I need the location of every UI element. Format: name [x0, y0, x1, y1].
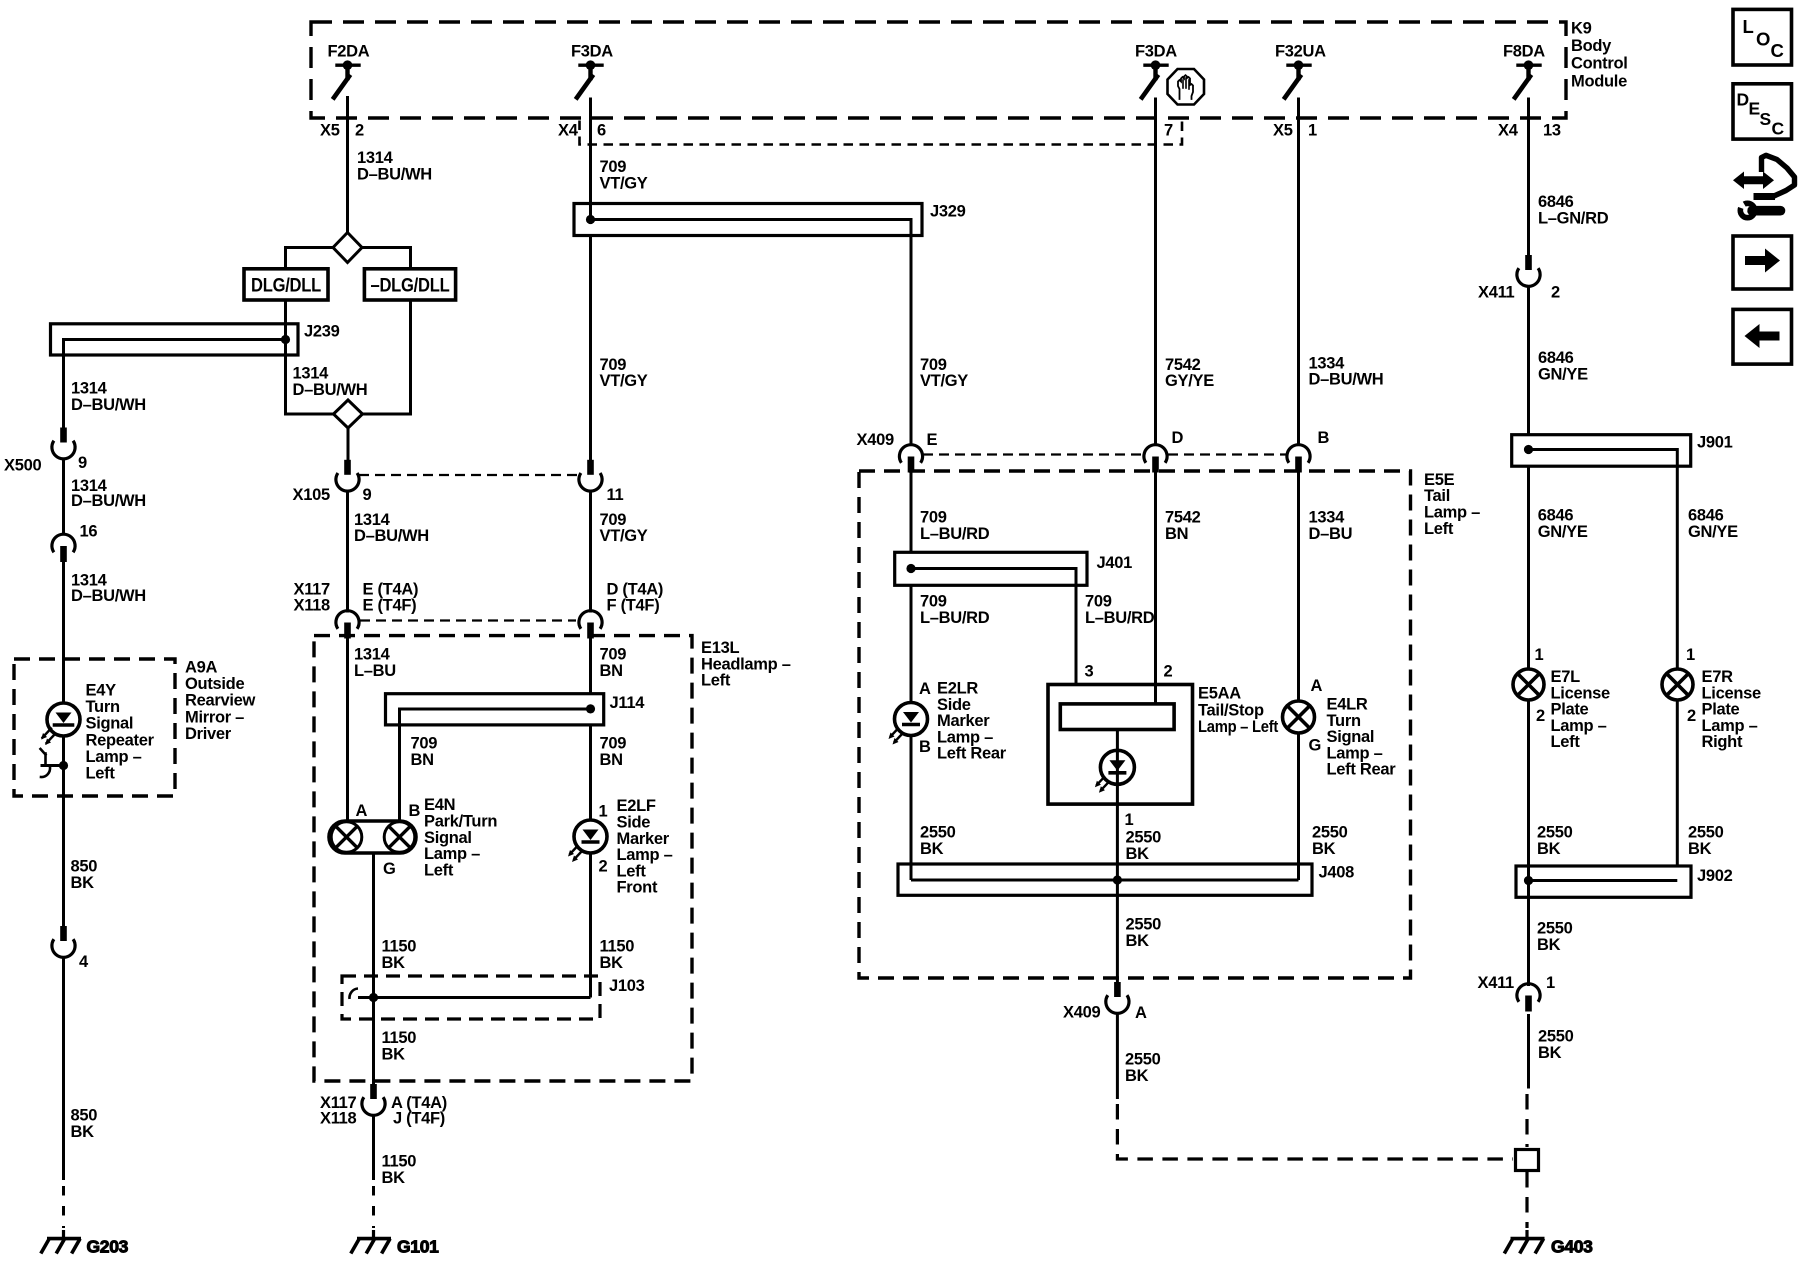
wire J902 to X411-1: [1516, 897, 1541, 1228]
svg-text:Marker: Marker: [937, 712, 990, 730]
wire J901 to E7L: [1527, 466, 1530, 669]
lamp E2LR side marker LED: [889, 703, 928, 881]
svg-text:Front: Front: [617, 879, 658, 897]
wire E5AA out: [1116, 730, 1119, 983]
svg-text:9: 9: [363, 486, 372, 504]
svg-text:11: 11: [607, 486, 624, 504]
wire DLG/DLL through J239 to diamond lower: [286, 300, 334, 414]
wire F8DA to X411-2: [1527, 98, 1530, 256]
svg-text:1314: 1314: [354, 511, 391, 529]
svg-text:6846: 6846: [1538, 507, 1574, 525]
svg-text:2550: 2550: [1537, 920, 1573, 938]
svg-text:Rearview: Rearview: [185, 692, 256, 710]
splice J239: [51, 324, 299, 355]
svg-text:Right: Right: [1702, 733, 1743, 751]
svg-text:BN: BN: [600, 662, 623, 680]
svg-text:E4N: E4N: [424, 796, 455, 814]
wire F2DA to diamond: [346, 98, 349, 234]
lamp E4N park/turn dual filament: [329, 821, 416, 998]
icon box DESC: [1733, 84, 1792, 139]
wire F3DA right to X409-D: [1154, 98, 1157, 445]
svg-text:BK: BK: [71, 1123, 95, 1141]
svg-text:Left: Left: [617, 862, 647, 880]
svg-text:709: 709: [920, 509, 947, 527]
svg-text:1150: 1150: [600, 938, 635, 956]
splice J902: [1516, 866, 1691, 897]
svg-text:Turn: Turn: [86, 698, 120, 716]
svg-text:1: 1: [1125, 811, 1134, 829]
svg-text:2550: 2550: [1688, 824, 1724, 842]
svg-text:Side: Side: [937, 696, 971, 714]
svg-text:L–BU: L–BU: [354, 662, 396, 680]
svg-text:VT/GY: VT/GY: [600, 372, 648, 390]
svg-text:Plate: Plate: [1551, 701, 1589, 719]
svg-text:Left: Left: [1424, 520, 1454, 538]
svg-text:Tail: Tail: [1424, 487, 1450, 505]
svg-text:L–BU/RD: L–BU/RD: [1085, 609, 1155, 627]
svg-text:GY/YE: GY/YE: [1165, 372, 1214, 390]
wire -DLG/DLL to diamond lower: [363, 300, 411, 414]
svg-text:J (T4F): J (T4F): [393, 1110, 445, 1128]
connector X411 pin 1: [1517, 984, 1540, 1002]
svg-text:E2LF: E2LF: [617, 797, 656, 815]
svg-text:J902: J902: [1697, 867, 1733, 885]
svg-text:X105: X105: [293, 486, 330, 504]
svg-text:BK: BK: [1126, 845, 1150, 863]
svg-text:Left: Left: [424, 861, 454, 879]
svg-text:L–GN/RD: L–GN/RD: [1538, 209, 1609, 227]
E5AA LED: [1100, 750, 1134, 784]
svg-text:2550: 2550: [1126, 829, 1162, 847]
svg-text:Left Rear: Left Rear: [937, 745, 1007, 763]
svg-text:Side: Side: [617, 814, 651, 832]
ground junction square: [1516, 1150, 1539, 1171]
svg-text:D–BU: D–BU: [1309, 525, 1353, 543]
svg-text:E4LR: E4LR: [1327, 696, 1368, 714]
svg-text:850: 850: [71, 858, 98, 876]
svg-text:BK: BK: [600, 954, 624, 972]
svg-text:Park/Turn: Park/Turn: [424, 813, 497, 831]
svg-text:Signal: Signal: [424, 829, 472, 847]
connector X105 pin 9: [344, 460, 351, 475]
svg-text:J901: J901: [1697, 434, 1733, 452]
svg-text:2: 2: [355, 122, 364, 140]
svg-text:F2DA: F2DA: [328, 43, 370, 61]
svg-text:Outside: Outside: [185, 675, 244, 693]
lamp E4Y turn signal repeater LED: [47, 703, 80, 736]
fuse F32UA: [1288, 63, 1310, 66]
svg-text:GN/YE: GN/YE: [1538, 523, 1588, 541]
connector X409 E: [899, 445, 922, 463]
svg-text:Mirror –: Mirror –: [185, 708, 244, 726]
connector 16: [52, 534, 75, 552]
svg-text:BK: BK: [1688, 840, 1712, 858]
svg-text:Lamp – Left: Lamp – Left: [1198, 718, 1279, 736]
svg-text:Left: Left: [701, 672, 731, 690]
icon vehicle data arrows and wrench: [1733, 155, 1795, 217]
connector X500 pin 9: [52, 428, 75, 704]
svg-text:E: E: [927, 431, 938, 449]
svg-text:BK: BK: [382, 1169, 406, 1187]
wire diamond to -DLG/DLL: [362, 248, 411, 269]
dashed lead square to G403: [1525, 1172, 1528, 1228]
connector X117/X118 pin E: [336, 611, 359, 629]
wire J401 to E2LR: [910, 585, 913, 703]
connector X409 pin A: [1106, 982, 1513, 1159]
svg-text:2550: 2550: [920, 824, 956, 842]
E13L dashed box headlamp left: [314, 636, 692, 1081]
svg-text:X4: X4: [558, 122, 579, 140]
svg-text:VT/GY: VT/GY: [920, 372, 968, 390]
splice J103 dashed box: [342, 976, 600, 1019]
svg-text:BK: BK: [1312, 840, 1336, 858]
svg-text:D: D: [1172, 429, 1184, 447]
svg-text:J329: J329: [930, 203, 966, 221]
splice J114: [386, 694, 604, 725]
ground G101: [351, 1230, 439, 1257]
wire E7L to J902: [1527, 700, 1530, 897]
fuse F3DA (right): [1145, 63, 1167, 66]
svg-text:G: G: [383, 860, 396, 878]
svg-text:A: A: [356, 802, 368, 820]
wire X117-E into E13L: [346, 638, 349, 822]
svg-text:1: 1: [1308, 122, 1317, 140]
wire 11 to X117-F: [589, 492, 592, 613]
svg-text:4: 4: [79, 953, 89, 971]
svg-text:J103: J103: [609, 977, 645, 995]
ground G403: [1504, 1230, 1593, 1257]
connector X411 pin 2: [1525, 255, 1532, 270]
svg-text:709: 709: [1085, 593, 1112, 611]
svg-text:Marker: Marker: [617, 830, 670, 848]
stop-hand octagon icon: [1168, 69, 1205, 105]
connector X117/X118 pin F: [579, 611, 602, 629]
svg-text:Lamp –: Lamp –: [1702, 717, 1758, 735]
wire to G101 lead: [372, 1116, 375, 1181]
svg-text:A: A: [919, 680, 931, 698]
svg-text:1150: 1150: [382, 1029, 417, 1047]
svg-text:709: 709: [600, 646, 627, 664]
wire E4N G to J103: [372, 853, 375, 998]
svg-text:E7R: E7R: [1702, 668, 1734, 686]
svg-text:B: B: [1318, 429, 1330, 447]
svg-text:E7L: E7L: [1551, 668, 1581, 686]
svg-text:F (T4F): F (T4F): [607, 596, 660, 614]
svg-text:2550: 2550: [1537, 824, 1573, 842]
svg-text:3: 3: [1085, 663, 1094, 681]
svg-text:Control: Control: [1571, 55, 1628, 73]
svg-text:BK: BK: [1538, 1044, 1562, 1062]
svg-text:X409: X409: [1063, 1004, 1100, 1022]
connector X500 pin 4: [52, 926, 75, 1228]
wire J103 out: [372, 998, 375, 1085]
wire X411-1 down: [1527, 1014, 1530, 1089]
svg-text:X500: X500: [4, 457, 41, 475]
fuse F8DA: [1518, 63, 1540, 66]
svg-text:D–BU/WH: D–BU/WH: [71, 492, 146, 510]
svg-text:Plate: Plate: [1702, 701, 1740, 719]
node diamond lower: [334, 400, 363, 428]
svg-text:BN: BN: [411, 751, 434, 769]
svg-text:1334: 1334: [1309, 354, 1346, 372]
svg-text:BN: BN: [600, 751, 623, 769]
svg-text:J401: J401: [1097, 554, 1133, 572]
wire E2LF to J103: [589, 853, 592, 998]
svg-text:709: 709: [920, 593, 947, 611]
svg-text:6846: 6846: [1538, 193, 1574, 211]
svg-text:7: 7: [1164, 122, 1173, 140]
svg-text:Body: Body: [1571, 37, 1612, 55]
svg-text:E5E: E5E: [1424, 471, 1455, 489]
svg-text:Lamp –: Lamp –: [617, 846, 673, 864]
wire diamond to DLG/DLL: [286, 248, 334, 269]
wire 16 to E4Y lamp: [62, 562, 65, 704]
wire X409-B to E4LR: [1297, 471, 1300, 702]
wire J329 to connector 11: [589, 236, 592, 461]
wire J114 to E2LF: [589, 725, 592, 821]
svg-text:A: A: [1135, 1004, 1147, 1022]
svg-text:K9: K9: [1571, 20, 1592, 38]
svg-text:D: D: [1737, 90, 1750, 110]
svg-text:VT/GY: VT/GY: [600, 527, 648, 545]
svg-text:G101: G101: [397, 1237, 439, 1257]
svg-text:X118: X118: [320, 1110, 357, 1128]
svg-text:1: 1: [599, 803, 608, 821]
wire X409-A down: [1116, 1014, 1119, 1100]
svg-text:D–BU/WH: D–BU/WH: [357, 165, 432, 183]
svg-text:1150: 1150: [382, 938, 417, 956]
svg-text:Module: Module: [1571, 72, 1627, 90]
wire X411-2 to J901: [1527, 287, 1530, 435]
svg-text:Left Rear: Left Rear: [1327, 761, 1397, 779]
svg-text:G403: G403: [1551, 1237, 1593, 1257]
svg-text:709: 709: [600, 158, 627, 176]
svg-text:B: B: [919, 738, 931, 756]
svg-text:D–BU/WH: D–BU/WH: [71, 587, 146, 605]
wire E4Y to X500-4: [62, 736, 65, 926]
svg-text:709: 709: [600, 511, 627, 529]
lamp E7L license plate: [1513, 669, 1693, 897]
svg-text:E: E: [1749, 99, 1761, 119]
connector X409 B: [1287, 445, 1310, 463]
wire X500-4 to ground lead: [62, 958, 65, 1181]
svg-text:X411: X411: [1478, 284, 1515, 302]
svg-text:6: 6: [597, 122, 606, 140]
svg-text:Left: Left: [1551, 733, 1581, 751]
svg-text:C: C: [1771, 40, 1784, 61]
svg-text:13: 13: [1543, 122, 1561, 140]
node diamond upper: [333, 233, 362, 263]
svg-text:A9A: A9A: [185, 659, 217, 677]
icon box arrow right: [1733, 236, 1792, 289]
svg-text:709: 709: [600, 356, 627, 374]
svg-text:Lamp –: Lamp –: [1551, 717, 1607, 735]
svg-text:J408: J408: [1319, 864, 1355, 882]
wire E4LR to J408: [1297, 733, 1300, 880]
connector X409 D: [1144, 445, 1167, 463]
svg-text:X409: X409: [857, 431, 894, 449]
svg-text:G: G: [1309, 737, 1322, 755]
wire diamond lower to X105: [347, 428, 350, 460]
svg-text:GN/YE: GN/YE: [1688, 523, 1738, 541]
svg-text:License: License: [1551, 684, 1610, 702]
svg-text:X118: X118: [294, 596, 331, 614]
E4Y pigtail hook: [44, 754, 47, 766]
svg-text:709: 709: [411, 735, 438, 753]
svg-text:2: 2: [1687, 707, 1696, 725]
svg-text:D–BU/WH: D–BU/WH: [1309, 371, 1384, 389]
splice J401: [895, 552, 1087, 585]
svg-text:1: 1: [1546, 974, 1555, 992]
svg-text:J239: J239: [304, 323, 340, 341]
svg-text:Tail/Stop: Tail/Stop: [1198, 701, 1264, 719]
svg-text:BN: BN: [1165, 525, 1188, 543]
svg-text:709: 709: [920, 356, 947, 374]
svg-text:16: 16: [80, 523, 98, 541]
svg-text:X4: X4: [1498, 122, 1519, 140]
svg-text:BK: BK: [71, 874, 95, 892]
svg-text:Headlamp –: Headlamp –: [701, 655, 791, 673]
svg-text:L: L: [1743, 16, 1754, 37]
svg-text:–DLG/DLL: –DLG/DLL: [371, 275, 450, 297]
svg-text:2: 2: [1536, 707, 1545, 725]
svg-text:E (T4F): E (T4F): [363, 596, 417, 614]
svg-text:BK: BK: [1126, 932, 1150, 950]
svg-text:BK: BK: [1125, 1067, 1149, 1085]
svg-text:BK: BK: [920, 840, 944, 858]
svg-text:1150: 1150: [382, 1153, 417, 1171]
svg-text:D–BU/WH: D–BU/WH: [71, 396, 146, 414]
svg-text:X5: X5: [1273, 122, 1293, 140]
svg-text:1: 1: [1686, 646, 1695, 664]
wire X409-D to E5AA: [1154, 471, 1157, 704]
E5AA element bar: [1060, 704, 1174, 730]
svg-text:O: O: [1756, 29, 1770, 50]
svg-text:Lamp –: Lamp –: [937, 728, 993, 746]
svg-text:G203: G203: [87, 1237, 129, 1257]
svg-text:BK: BK: [1537, 936, 1561, 954]
svg-text:BK: BK: [382, 1045, 406, 1063]
svg-text:B: B: [409, 802, 421, 820]
svg-text:2: 2: [1164, 663, 1173, 681]
svg-text:Signal: Signal: [1327, 728, 1375, 746]
svg-text:BK: BK: [1537, 840, 1561, 858]
svg-text:1334: 1334: [1309, 509, 1346, 527]
fuse F3DA (left): [580, 63, 602, 66]
wire X117-F into E13L: [589, 638, 592, 695]
svg-text:F8DA: F8DA: [1503, 43, 1545, 61]
wire E7R to J902: [1676, 700, 1679, 866]
dashed connector line X409: [923, 453, 1143, 455]
svg-text:F32UA: F32UA: [1275, 43, 1326, 61]
svg-text:D–BU/WH: D–BU/WH: [293, 381, 368, 399]
A9A dashed box outside rearview mirror: [14, 659, 175, 796]
lamp E2LF side marker LED: [568, 820, 607, 998]
wire F32UA to X409-B: [1297, 98, 1300, 445]
svg-text:1314: 1314: [354, 646, 391, 664]
svg-text:GN/YE: GN/YE: [1538, 365, 1588, 383]
wire F3DA to J329: [589, 98, 592, 205]
lamp E5AA tail/stop box: [1048, 685, 1193, 983]
svg-text:1314: 1314: [293, 365, 330, 383]
svg-text:2: 2: [1551, 284, 1560, 302]
svg-text:Lamp –: Lamp –: [1327, 744, 1383, 762]
icon box arrow left: [1733, 309, 1792, 364]
svg-text:F3DA: F3DA: [1135, 43, 1177, 61]
svg-text:E13L: E13L: [701, 639, 739, 657]
svg-text:2: 2: [599, 858, 608, 876]
wire X105 to X117: [346, 492, 349, 613]
svg-text:7542: 7542: [1165, 356, 1201, 374]
svg-text:E4Y: E4Y: [86, 682, 117, 700]
fuse F2DA: [337, 63, 359, 66]
svg-text:S: S: [1760, 109, 1772, 129]
svg-text:1: 1: [1535, 646, 1544, 664]
svg-text:DLG/DLL: DLG/DLL: [251, 275, 321, 297]
icon box LOC: [1733, 9, 1792, 65]
svg-text:VT/GY: VT/GY: [600, 174, 648, 192]
svg-text:2550: 2550: [1312, 824, 1348, 842]
svg-text:Turn: Turn: [1327, 712, 1361, 730]
wire E2LR to J408: [910, 736, 913, 881]
wire X409-E into E5E: [910, 471, 913, 552]
svg-text:6846: 6846: [1538, 349, 1574, 367]
lamp E4LR turn signal: [1283, 701, 1315, 880]
svg-text:License: License: [1702, 684, 1761, 702]
dashed connector line X117: [360, 619, 576, 621]
dashed lead X411-1 to square: [1525, 1094, 1528, 1147]
svg-text:A: A: [1311, 677, 1323, 695]
svg-text:Lamp –: Lamp –: [1424, 504, 1480, 522]
svg-text:L–BU/RD: L–BU/RD: [920, 525, 990, 543]
splice J408: [898, 864, 1312, 895]
svg-text:F3DA: F3DA: [571, 43, 613, 61]
ground G203: [41, 1230, 129, 1257]
svg-text:E5AA: E5AA: [1198, 685, 1241, 703]
dashed route X409-A to ground square: [1117, 1104, 1513, 1159]
svg-text:Lamp –: Lamp –: [86, 748, 142, 766]
svg-text:Driver: Driver: [185, 725, 232, 743]
splice J329: [574, 204, 922, 236]
svg-text:709: 709: [600, 735, 627, 753]
svg-text:1314: 1314: [71, 380, 108, 398]
lamp E7R license plate: [1662, 669, 1693, 700]
connector 11 pin: [587, 460, 594, 475]
svg-text:9: 9: [78, 454, 87, 472]
svg-text:E2LR: E2LR: [937, 680, 978, 698]
svg-text:7542: 7542: [1165, 509, 1201, 527]
svg-text:X5: X5: [320, 122, 340, 140]
svg-text:Left: Left: [86, 765, 116, 783]
svg-text:6846: 6846: [1688, 507, 1724, 525]
svg-text:BK: BK: [382, 954, 406, 972]
svg-text:D–BU/WH: D–BU/WH: [354, 527, 429, 545]
dashed lead to G203: [62, 1186, 65, 1228]
svg-text:1314: 1314: [357, 149, 394, 167]
svg-text:X411: X411: [1478, 974, 1515, 992]
option box DLG/DLL: [244, 269, 456, 300]
svg-text:J114: J114: [610, 694, 646, 712]
svg-text:Lamp –: Lamp –: [424, 845, 480, 863]
dotted X4 connector sub-line: [580, 121, 1183, 145]
splice J901: [1512, 435, 1691, 467]
connector X117/X118 pin A: [362, 1084, 385, 1228]
svg-text:2550: 2550: [1126, 916, 1162, 934]
svg-text:Repeater: Repeater: [86, 731, 155, 749]
BCM dashed box K9 Body Control Module: [311, 22, 1566, 118]
svg-text:Signal: Signal: [86, 715, 134, 733]
E5E dashed box tail lamp left: [859, 471, 1411, 978]
